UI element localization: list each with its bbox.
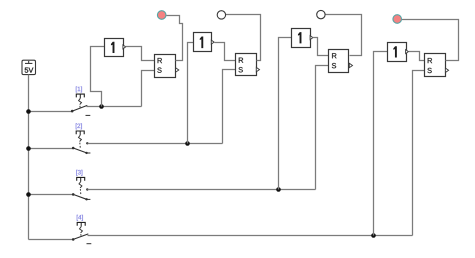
node: bus junction at S1 row xyxy=(26,109,31,114)
wire: S3 line to inverter U3 input xyxy=(279,38,292,190)
wire: FF3 Q output up to LED D3 xyxy=(326,15,362,56)
wire: switch S3 output line xyxy=(88,189,316,191)
RS flip-flop FF1 xyxy=(155,55,179,78)
switch S4 [4] (closed) xyxy=(72,215,91,244)
wire: bus to switch S1 input xyxy=(29,111,73,113)
inverter U3 xyxy=(292,29,313,48)
wire: FF2 Q output up to LED D2 xyxy=(226,15,261,61)
wire: S4 line to inverter U4 input xyxy=(374,52,388,236)
wire: S1 line end up to FF1 S input xyxy=(142,71,155,107)
power source V1 +5V xyxy=(22,60,36,74)
wire: inverter U2 output to FF2 R input xyxy=(215,43,236,61)
wire: S1 line to inverter U1 input xyxy=(91,47,105,107)
switch S2 [2] (open) xyxy=(72,123,91,154)
wire: FF4 Q output up to LED D4 xyxy=(402,20,459,61)
wire: inverter U3 output to FF3 R input xyxy=(313,38,329,56)
switch S1 [1] (closed) xyxy=(71,87,90,116)
switch S3 [3] (open) xyxy=(72,170,91,201)
LED D1 (on, red) xyxy=(157,11,166,20)
inverter U1 xyxy=(105,39,126,57)
wire: S3 line end up to FF3 S input xyxy=(316,66,329,190)
node: junction on S3 line to inverter U3 xyxy=(276,187,281,192)
inverter U4 xyxy=(388,43,409,62)
node: junction on S4 line to inverter U4 xyxy=(371,233,376,238)
wire: switch S4 output line xyxy=(88,235,413,237)
inverter U2 xyxy=(194,33,215,52)
node: junction on S1 line to inverter U1 xyxy=(99,104,104,109)
wire: inverter U1 output to FF1 R input xyxy=(126,47,155,61)
LED D2 (off, white) xyxy=(217,11,225,19)
wire: switch S1 output line xyxy=(87,106,142,108)
wire: bus corner to switch S4 input xyxy=(29,239,74,241)
wire: S2 line end up to FF2 S input xyxy=(223,70,236,144)
node: bus junction at S3 row xyxy=(26,192,31,197)
wire: inverter U4 output to FF4 R input xyxy=(409,52,425,61)
wire: S2 line to inverter U2 input xyxy=(188,43,194,144)
wire: S4 line end up to FF4 S input xyxy=(413,71,425,236)
wire: switch S2 output line xyxy=(88,143,223,145)
wire: bus to switch S3 input xyxy=(29,194,74,196)
node: junction on S2 line to inverter U2 xyxy=(185,141,190,146)
RS flip-flop FF3 xyxy=(329,50,353,73)
wire: FF1 Q output up to LED D1 xyxy=(167,16,183,61)
node: bus junction at S2 row xyxy=(26,146,31,151)
wire: bus to switch S2 input xyxy=(29,148,74,150)
RS flip-flop FF2 xyxy=(236,54,260,76)
LED D4 (on, red) xyxy=(393,15,402,24)
RS flip-flop FF4 xyxy=(425,54,449,77)
LED D3 (off, white) xyxy=(317,10,325,18)
wire: +5V bus vertical xyxy=(28,75,30,240)
